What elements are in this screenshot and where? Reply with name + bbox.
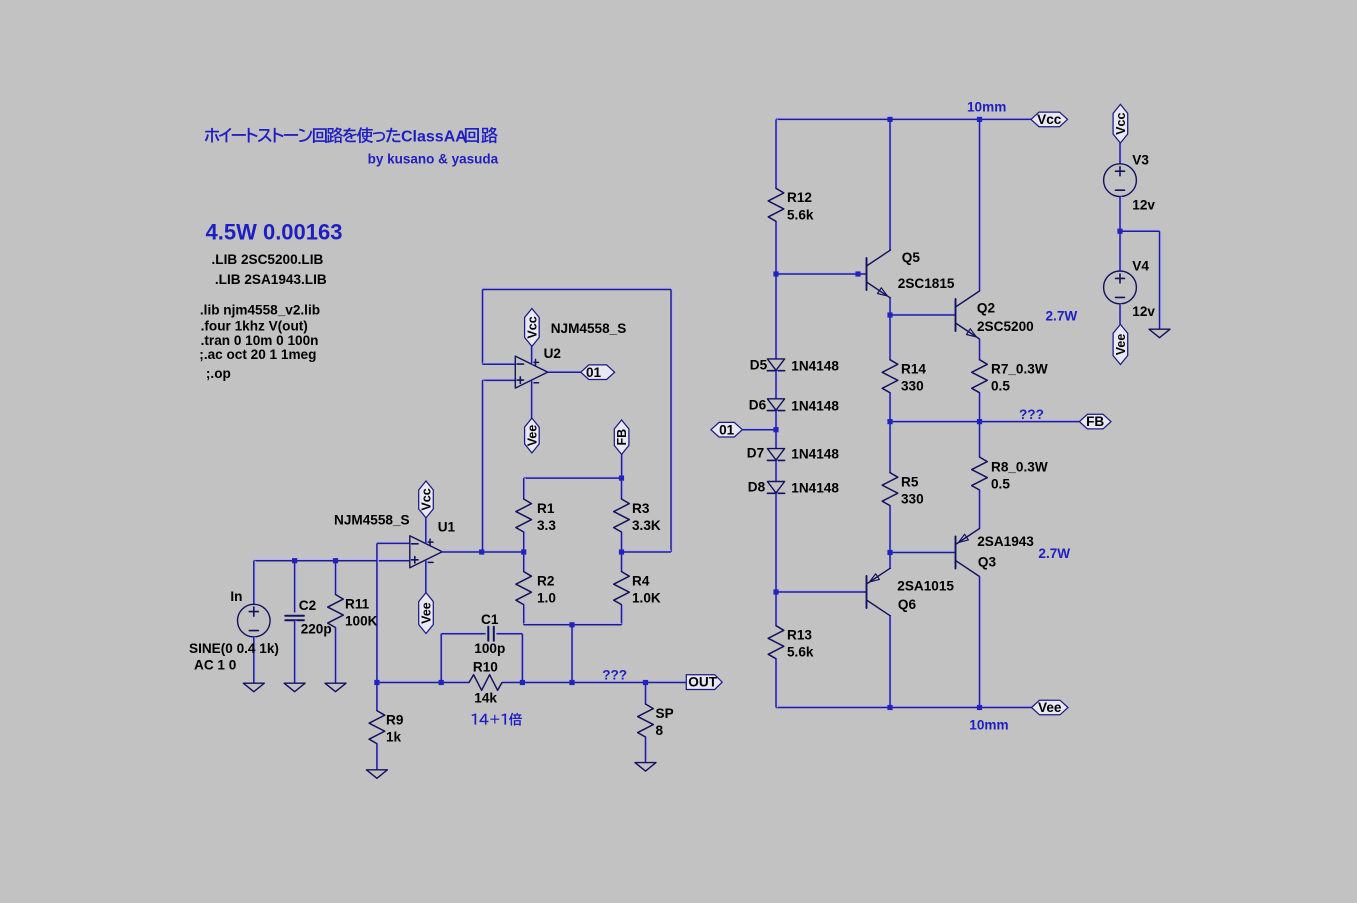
svg-text:R1: R1 bbox=[537, 501, 555, 516]
svg-text:10mm: 10mm bbox=[967, 99, 1006, 114]
svg-text:1.0: 1.0 bbox=[537, 591, 556, 606]
svg-text:1N4148: 1N4148 bbox=[791, 398, 839, 413]
svg-text:1N4148: 1N4148 bbox=[791, 358, 839, 373]
svg-text:2.7W: 2.7W bbox=[1038, 546, 1070, 561]
svg-text:2SC5200: 2SC5200 bbox=[977, 319, 1034, 334]
svg-text:0.5: 0.5 bbox=[991, 379, 1010, 394]
svg-text:C1: C1 bbox=[481, 612, 499, 627]
svg-text:D5: D5 bbox=[750, 357, 768, 372]
svg-text:5.6k: 5.6k bbox=[787, 645, 814, 660]
svg-text:01: 01 bbox=[586, 365, 602, 380]
svg-text:1N4148: 1N4148 bbox=[791, 447, 839, 462]
svg-text:R8_0.3W: R8_0.3W bbox=[991, 459, 1048, 474]
svg-text:.LIB 2SA1943.LIB: .LIB 2SA1943.LIB bbox=[215, 272, 327, 287]
svg-text:C2: C2 bbox=[299, 598, 317, 613]
svg-text:Vcc: Vcc bbox=[419, 488, 433, 510]
svg-text:14k: 14k bbox=[474, 691, 497, 706]
svg-text:Vee: Vee bbox=[419, 602, 433, 624]
svg-text:Q5: Q5 bbox=[902, 250, 921, 265]
svg-text:Q2: Q2 bbox=[977, 301, 996, 316]
svg-text:12v: 12v bbox=[1132, 197, 1155, 212]
svg-text:2SA1943: 2SA1943 bbox=[977, 534, 1034, 549]
svg-text:Vcc: Vcc bbox=[1114, 113, 1128, 135]
svg-text:1k: 1k bbox=[386, 729, 402, 744]
svg-text:AC 1 0: AC 1 0 bbox=[194, 658, 236, 673]
svg-text:Vcc: Vcc bbox=[1037, 112, 1062, 127]
svg-text:330: 330 bbox=[901, 379, 924, 394]
svg-text:;.op: ;.op bbox=[206, 366, 231, 381]
svg-text:8: 8 bbox=[656, 723, 664, 738]
svg-text:NJM4558_S: NJM4558_S bbox=[334, 513, 410, 528]
svg-text:V4: V4 bbox=[1132, 258, 1149, 273]
svg-text:10mm: 10mm bbox=[969, 717, 1008, 732]
svg-text:by kusano & yasuda: by kusano & yasuda bbox=[368, 151, 499, 166]
svg-text:2SA1015: 2SA1015 bbox=[897, 579, 954, 594]
svg-text:Q3: Q3 bbox=[978, 554, 997, 569]
svg-text:R4: R4 bbox=[632, 574, 650, 589]
svg-text:OUT: OUT bbox=[688, 675, 717, 690]
svg-text:1N4148: 1N4148 bbox=[791, 480, 839, 495]
svg-text:3.3: 3.3 bbox=[537, 518, 556, 533]
svg-text:1.0K: 1.0K bbox=[632, 591, 661, 606]
svg-text:R5: R5 bbox=[901, 475, 919, 490]
svg-text:12v: 12v bbox=[1132, 304, 1155, 319]
svg-text:V3: V3 bbox=[1132, 152, 1149, 167]
svg-text:0.5: 0.5 bbox=[991, 476, 1010, 491]
svg-text:Vee: Vee bbox=[1114, 334, 1128, 356]
svg-text:SINE(0 0.4 1k): SINE(0 0.4 1k) bbox=[189, 641, 279, 656]
svg-text:3.3K: 3.3K bbox=[632, 518, 661, 533]
svg-text:FB: FB bbox=[1086, 414, 1104, 429]
svg-text:R2: R2 bbox=[537, 574, 555, 589]
svg-text:Vcc: Vcc bbox=[525, 316, 539, 338]
svg-text:01: 01 bbox=[719, 422, 735, 437]
svg-text:Vee: Vee bbox=[525, 425, 539, 447]
svg-text:.LIB 2SC5200.LIB: .LIB 2SC5200.LIB bbox=[212, 252, 324, 267]
svg-text:D6: D6 bbox=[749, 398, 767, 413]
svg-text:ClassAA: ClassAA bbox=[401, 129, 467, 146]
svg-text:4.5W 0.00163: 4.5W 0.00163 bbox=[206, 219, 343, 244]
svg-text:220p: 220p bbox=[301, 621, 332, 636]
svg-text:5.6k: 5.6k bbox=[787, 207, 814, 222]
svg-text:U1: U1 bbox=[438, 520, 456, 535]
svg-text:In: In bbox=[230, 589, 242, 604]
svg-text:;.ac oct 20 1 1meg: ;.ac oct 20 1 1meg bbox=[199, 347, 316, 362]
svg-text:Vee: Vee bbox=[1038, 700, 1062, 715]
svg-text:U2: U2 bbox=[544, 346, 562, 361]
svg-text:2.7W: 2.7W bbox=[1046, 308, 1078, 323]
svg-text:R7_0.3W: R7_0.3W bbox=[991, 362, 1048, 377]
svg-text:R14: R14 bbox=[901, 362, 926, 377]
svg-text:330: 330 bbox=[901, 492, 924, 507]
svg-text:100p: 100p bbox=[474, 641, 505, 656]
svg-text:R9: R9 bbox=[386, 712, 404, 727]
svg-text:D7: D7 bbox=[747, 446, 764, 461]
svg-text:R11: R11 bbox=[345, 596, 370, 611]
svg-text:D8: D8 bbox=[748, 479, 766, 494]
svg-text:FB: FB bbox=[615, 429, 629, 446]
svg-text:.four 1khz V(out): .four 1khz V(out) bbox=[201, 318, 308, 333]
svg-text:.lib njm4558_v2.lib: .lib njm4558_v2.lib bbox=[200, 302, 320, 317]
svg-text:2SC1815: 2SC1815 bbox=[898, 276, 955, 291]
svg-text:.tran 0 10m 0 100n: .tran 0 10m 0 100n bbox=[201, 333, 319, 348]
svg-text:R13: R13 bbox=[787, 628, 812, 643]
svg-text:R12: R12 bbox=[787, 190, 812, 205]
svg-text:???: ??? bbox=[1019, 407, 1044, 422]
svg-text:R10: R10 bbox=[473, 660, 498, 675]
svg-text:100K: 100K bbox=[345, 613, 378, 628]
svg-text:R3: R3 bbox=[632, 501, 650, 516]
svg-text:Q6: Q6 bbox=[898, 597, 917, 612]
svg-text:SP: SP bbox=[656, 706, 674, 721]
svg-text:NJM4558_S: NJM4558_S bbox=[551, 321, 627, 336]
svg-text:???: ??? bbox=[602, 668, 627, 683]
